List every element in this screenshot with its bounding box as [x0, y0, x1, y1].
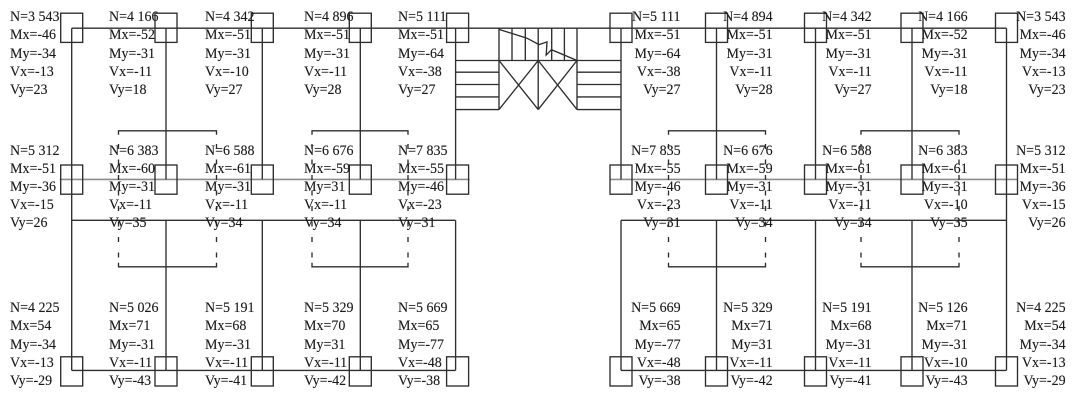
column square top row axis 8 [805, 13, 827, 42]
stair mid line (x=538) [537, 28, 539, 109]
stair flight tread x=525.3 [524, 28, 526, 60]
column square top row axis 10 [996, 13, 1018, 42]
loads top row col 4 [304, 8, 354, 100]
column axis line 7 upper segment (x=716.5) [716, 28, 718, 179]
column axis line 6 upper segment (x=621.0) [620, 28, 622, 179]
loads bottom row col 10 [1016, 299, 1066, 390]
loads top row col 10 [1016, 8, 1066, 100]
wall line middle right segment (y=220) [621, 219, 1007, 221]
column square top row axis 7 [706, 13, 728, 42]
wall line middle left segment (y=220) [72, 219, 456, 221]
stair tread left strip y=72.2 [456, 71, 499, 73]
column axis line 2 lower segment (x=166.0) [165, 220, 167, 370]
column square middle row axis 7 [706, 165, 728, 194]
column square bottom row axis 2 [155, 357, 177, 386]
opening 3 bottom bracket [669, 263, 766, 267]
column square bottom row axis 1 [61, 357, 83, 386]
column square middle row axis 8 [805, 165, 827, 194]
stair bottom edge left strip [456, 109, 499, 111]
column square bottom row axis 5 [447, 357, 469, 386]
column axis line 9 lower segment (x=912.0) [911, 220, 913, 370]
stair tread left strip y=84.5 [456, 84, 499, 86]
column square top row axis 3 [251, 13, 273, 42]
opening 4 dashed side right [958, 144, 960, 262]
column square middle row axis 1 [61, 165, 83, 194]
stair landing edge right (x=577) [576, 28, 578, 109]
column axis line 2 upper segment (x=166.0) [165, 28, 167, 179]
loads middle row col 1 [10, 143, 60, 233]
loads top row col 7 [723, 8, 773, 100]
column axis line 3 upper segment (x=262.3) [261, 28, 263, 179]
column square top row axis 4 [349, 13, 371, 42]
stair flight tread x=564.4 [563, 28, 565, 60]
column square middle row axis 10 [996, 165, 1018, 194]
slab edge gray line right segment (y=179) [610, 178, 1018, 180]
loads top row col 5 [398, 8, 447, 100]
loads middle row col 8 [822, 143, 872, 233]
column square bottom row axis 7 [706, 357, 728, 386]
opening 2 dashed side right [407, 144, 409, 262]
loads middle row col 10 [1016, 143, 1066, 233]
column axis line 6 lower segment (x=621.0) [620, 220, 622, 370]
opening 4 top bracket [861, 131, 959, 135]
stair bottom edge right strip [577, 109, 621, 111]
column axis line 4 lower segment (x=360.3) [359, 220, 361, 370]
opening 4 dashed side left [860, 144, 862, 262]
column square top row axis 5 [447, 13, 469, 42]
stair tread right strip y=96.9 [577, 96, 621, 98]
stair walk-line with break symbol [499, 29, 577, 60]
stair tread right strip y=84.5 [577, 84, 621, 86]
loads top row col 6 [632, 8, 681, 100]
column square top row axis 2 [155, 13, 177, 42]
wall line bottom left segment (y=370) [72, 369, 456, 371]
opening 1 dashed side right [216, 144, 218, 262]
column square top row axis 1 [61, 13, 83, 42]
column axis line 8 upper segment (x=815.5) [815, 28, 817, 179]
opening 1 dashed side left [118, 144, 120, 262]
column square bottom row axis 3 [251, 357, 273, 386]
column axis line 1 (x=71.7) [71, 28, 73, 370]
loads bottom row col 2 [109, 299, 159, 390]
column square middle row axis 6 [610, 165, 632, 194]
column axis line 5 upper segment (x=455.6) [455, 28, 457, 179]
opening 2 top bracket [312, 131, 408, 135]
stair tread left strip y=96.9 [456, 96, 499, 98]
loads middle row col 3 [205, 143, 255, 233]
stair landing edge left (x=499) [498, 28, 500, 109]
loads middle row col 9 [918, 143, 968, 233]
loads top row col 3 [205, 8, 255, 100]
loads bottom row col 5 [398, 299, 448, 390]
column square bottom row axis 4 [349, 357, 371, 386]
loads middle row col 4 [304, 143, 354, 233]
stair cross diagonal 4 [538, 61, 577, 110]
wall line bottom right segment (y=370) [621, 369, 1007, 371]
column axis line 9 upper segment (x=912.0) [911, 28, 913, 179]
column square bottom row axis 6 [610, 357, 632, 386]
column square middle row axis 9 [901, 165, 923, 194]
loads bottom row col 1 [10, 299, 60, 390]
loads bottom row col 8 [822, 299, 872, 390]
opening 2 dashed side left [311, 144, 313, 262]
loads middle row col 6 [631, 143, 681, 233]
column axis line 10 (x=1006.5) [1006, 28, 1008, 370]
opening 3 dashed side left [668, 144, 670, 262]
loads top row col 2 [109, 8, 159, 100]
opening 1 bottom bracket [119, 263, 217, 267]
loads top row col 8 [822, 8, 872, 100]
column square middle row axis 4 [349, 165, 371, 194]
column square bottom row axis 9 [901, 357, 923, 386]
opening 3 top bracket [669, 131, 766, 135]
stair flight tread x=512.0 [511, 28, 513, 60]
stair flight tread x=551.7 [551, 28, 553, 60]
opening 1 top bracket [119, 131, 217, 135]
loads bottom row col 4 [304, 299, 354, 390]
stair tread right strip y=72.2 [577, 71, 621, 73]
column axis line 3 lower segment (x=262.3) [261, 220, 263, 370]
column axis line 5 lower segment (x=455.6) [455, 220, 457, 370]
column square bottom row axis 8 [805, 357, 827, 386]
column square middle row axis 2 [155, 165, 177, 194]
slab edge gray line left segment (y=179) [60, 178, 470, 180]
column square middle row axis 3 [251, 165, 273, 194]
wall line top (y=29) [72, 27, 1007, 29]
loads bottom row col 6 [631, 299, 681, 390]
loads middle row col 5 [398, 143, 448, 233]
column axis line 4 upper segment (x=360.3) [359, 28, 361, 179]
stair cross diagonal 1 [499, 61, 538, 110]
loads bottom row col 9 [918, 299, 968, 390]
stair cross diagonal 2 [499, 61, 538, 110]
opening 3 dashed side right [765, 144, 767, 262]
loads middle row col 2 [109, 143, 159, 233]
column square top row axis 6 [610, 13, 632, 42]
loads top row col 1 [10, 8, 60, 100]
loads bottom row col 3 [205, 299, 255, 390]
column axis line 8 lower segment (x=815.5) [815, 220, 817, 370]
column square top row axis 9 [901, 13, 923, 42]
loads top row col 9 [918, 8, 968, 100]
opening 4 bottom bracket [861, 263, 959, 267]
loads bottom row col 7 [723, 299, 773, 390]
opening 2 bottom bracket [312, 263, 408, 267]
stair cross diagonal 3 [538, 61, 577, 110]
loads middle row col 7 [723, 143, 773, 233]
stair landing line [456, 60, 621, 62]
column square middle row axis 5 [447, 165, 469, 194]
column axis line 7 lower segment (x=716.5) [716, 220, 718, 370]
column square bottom row axis 10 [996, 357, 1018, 386]
